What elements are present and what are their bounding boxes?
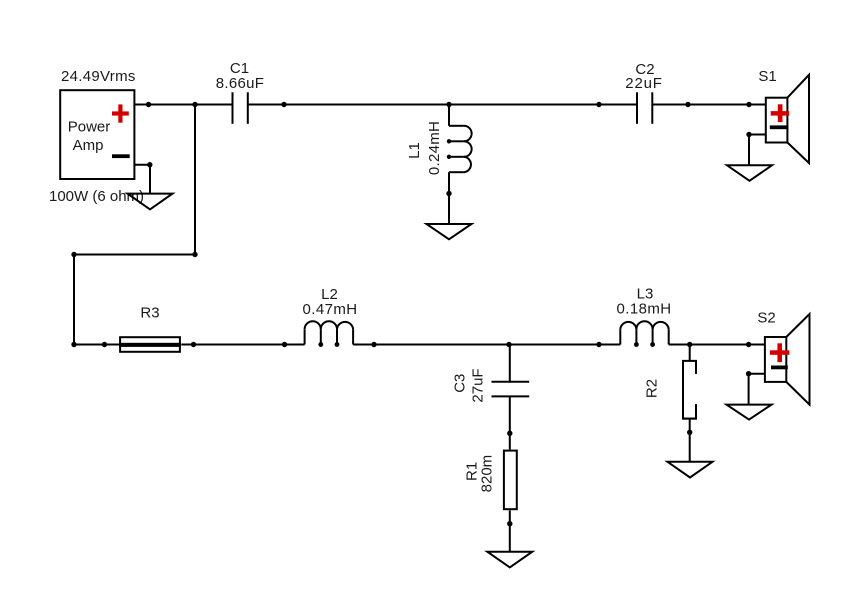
svg-text:0.18mH: 0.18mH — [617, 300, 672, 317]
node dot L1 tap — [446, 102, 451, 107]
node dot after L2 — [371, 342, 376, 347]
node dot C3 tap — [506, 342, 511, 347]
svg-text:820m: 820m — [479, 455, 496, 493]
svg-text:R2: R2 — [644, 379, 661, 398]
ground below S1 — [727, 165, 772, 181]
wire left vertical — [73, 255, 75, 345]
resistor R2 — [683, 361, 696, 419]
svg-text:S1: S1 — [758, 68, 776, 85]
capacitor C3 plates — [492, 382, 530, 397]
minus terminal mark of amp — [112, 154, 130, 158]
svg-text:8.66uF: 8.66uF — [216, 75, 265, 92]
svg-text:27uF: 27uF — [470, 368, 487, 402]
node dot top branch junction — [192, 102, 197, 107]
ground below L1 — [427, 224, 472, 239]
wire to R3 — [74, 344, 120, 346]
ground below S2 — [727, 405, 772, 420]
wire amp plus output — [134, 104, 232, 106]
node dot S2 minus — [746, 371, 751, 376]
wire amp minus stub — [134, 165, 150, 194]
wire L3 to S2 — [669, 344, 765, 346]
node dot before L3 — [596, 342, 601, 347]
capacitor C2 plates — [637, 92, 652, 124]
capacitor C1 plates — [233, 92, 248, 124]
ground below R1 — [487, 552, 532, 568]
ground below amp — [128, 194, 173, 210]
svg-text:Amp: Amp — [73, 137, 104, 154]
power amp box U1 — [60, 90, 134, 179]
node dot amp minus — [147, 162, 152, 167]
node dot corner left — [71, 252, 76, 257]
wire L2 to L3 — [353, 344, 620, 346]
svg-text:100W (6 ohm): 100W (6 ohm) — [49, 188, 144, 205]
node dot lower left corner — [71, 342, 76, 347]
node dot after R3 — [191, 342, 196, 347]
node dot S1 plus — [746, 102, 751, 107]
wire R2 top — [689, 345, 691, 361]
node dot corner right — [192, 252, 197, 257]
svg-text:0.24mH: 0.24mH — [426, 121, 443, 175]
wire C1 to C2 — [248, 104, 637, 106]
wire C3 top — [509, 345, 511, 382]
wire S1 minus stub — [749, 135, 766, 166]
wire R1 to ground — [509, 510, 511, 551]
wire R3 to L2 — [181, 344, 304, 346]
inductor L3 — [620, 321, 668, 344]
svg-text:22uF: 22uF — [625, 75, 662, 92]
node dot before L2 — [282, 342, 287, 347]
svg-text:0.47mH: 0.47mH — [303, 301, 358, 318]
node dot mid segment — [596, 102, 601, 107]
inductor L1 vertical coil — [449, 105, 472, 225]
resistor R1 — [504, 451, 517, 510]
wire middle horizontal — [74, 254, 195, 256]
L3 coil junction dots — [634, 342, 639, 347]
inductor L2 — [305, 321, 354, 344]
node dot after C2 — [685, 102, 690, 107]
svg-text:R3: R3 — [140, 305, 159, 322]
node dot below R1 — [507, 521, 512, 526]
node dot after C1 — [281, 102, 286, 107]
wire top branch vertical — [194, 105, 196, 255]
wire R2 to ground — [689, 419, 691, 462]
node dot amp output — [146, 102, 151, 107]
node dot S1 minus — [746, 132, 751, 137]
svg-text:C3: C3 — [452, 374, 469, 393]
node dot below R2 — [687, 430, 692, 435]
node dot R2 tap — [687, 342, 692, 347]
resistor R3 — [119, 337, 181, 352]
wire S2 minus stub — [749, 374, 765, 405]
svg-text:S2: S2 — [757, 310, 775, 327]
svg-text:Power: Power — [68, 119, 111, 136]
wire C2 to S1 — [652, 104, 766, 106]
ground below R2 — [668, 462, 713, 478]
node dot between C3 and R1 — [507, 431, 512, 436]
speaker S1 — [766, 75, 809, 163]
L1 coil junction dots — [447, 139, 451, 143]
L2 coil junction dots — [318, 342, 323, 347]
plus terminal mark (red) of amp — [112, 104, 129, 122]
node dot S2 plus — [746, 342, 751, 347]
svg-text:L1: L1 — [406, 142, 423, 159]
svg-text:24.49Vrms: 24.49Vrms — [61, 68, 136, 85]
wire C3 to R1 — [509, 396, 511, 449]
node dot before R3 — [102, 342, 107, 347]
node dot below L1 — [446, 191, 451, 196]
speaker S2 — [765, 314, 810, 405]
